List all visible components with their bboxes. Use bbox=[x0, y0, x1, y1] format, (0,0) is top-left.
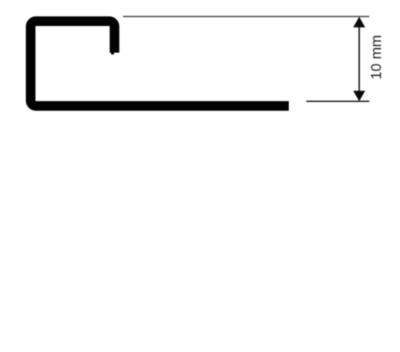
extension line bottom bbox=[306, 100, 369, 102]
extension line top bbox=[123, 16, 369, 18]
arrowhead down bbox=[353, 91, 365, 101]
svg-text:10 mm: 10 mm bbox=[369, 35, 385, 80]
profile cross-section (square-edge trim) bbox=[31, 21, 289, 106]
dimension line bbox=[358, 25, 360, 93]
lip barb bbox=[111, 52, 114, 55]
arrowhead up bbox=[353, 17, 365, 28]
